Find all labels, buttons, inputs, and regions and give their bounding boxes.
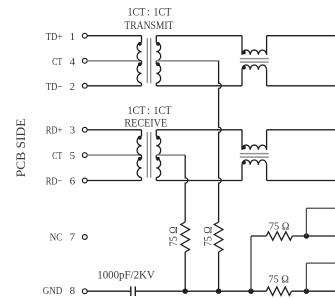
wire pin2 TD- to T1 primary bottom <box>87 85 141 87</box>
capacitor C1 1000pF/2KV <box>130 286 132 296</box>
resistor R1 75ohm (vertical) <box>181 222 190 252</box>
svg-text:GND: GND <box>43 285 63 297</box>
svg-text:1CT: 1CT <box>153 105 171 117</box>
resistor R2 75ohm (vertical) <box>214 222 223 252</box>
choke L1 (transmit) bottom winding polarity dot <box>242 66 246 70</box>
svg-text:1CT: 1CT <box>128 7 146 19</box>
svg-text::: : <box>147 7 150 19</box>
transformer T2 RECEIVE primary polarity dot top <box>138 136 142 140</box>
wire R4 junction up <box>305 208 307 236</box>
wire pin8 GND to C1 <box>87 290 131 292</box>
svg-text:75 Ω: 75 Ω <box>268 274 289 286</box>
svg-text:RD+: RD+ <box>46 125 63 137</box>
choke L2 (receive) bottom winding polarity dot <box>242 161 246 165</box>
svg-text:8: 8 <box>70 285 76 297</box>
junction node R1/GND <box>183 289 188 294</box>
svg-text:CT: CT <box>52 150 62 162</box>
junction node R3 output <box>304 289 309 294</box>
wire pin3 RD+ to T2 primary top <box>87 129 141 131</box>
choke L1 (transmit) top winding polarity dot <box>242 51 246 55</box>
pin 4 CT terminal <box>82 58 87 63</box>
transformer T1 TRANSMIT secondary polarity dot bottom <box>156 62 160 66</box>
transformer T1 TRANSMIT primary polarity dot bottom <box>138 62 142 66</box>
wire GND bus C1 to R3 <box>135 290 266 292</box>
svg-text:4: 4 <box>70 56 76 68</box>
svg-text:RECEIVE: RECEIVE <box>124 117 167 129</box>
junction node R4-leg/GND <box>248 289 253 294</box>
transformer T2 RECEIVE core <box>146 132 148 178</box>
wire pin6 RD- to T2 primary bottom <box>87 180 141 182</box>
wire R3 right to edge <box>292 290 335 292</box>
pin 2 TD- terminal <box>82 83 87 88</box>
transformer T2 RECEIVE primary polarity dot bottom <box>138 157 142 161</box>
wire T2 secondary center tap (gray) <box>156 154 185 156</box>
svg-text::: : <box>147 105 150 117</box>
svg-text:3: 3 <box>70 125 76 137</box>
wire L1 bottom output to edge <box>267 85 335 87</box>
transformer T2 RECEIVE secondary polarity dot top <box>156 136 160 140</box>
wire L2 top output to edge <box>267 129 335 131</box>
pin 8 GND terminal <box>82 289 87 294</box>
svg-text:2: 2 <box>70 81 76 93</box>
svg-text:NC: NC <box>50 231 63 243</box>
wire L1 top output to edge <box>267 35 335 37</box>
choke L2 (receive) core <box>240 153 269 155</box>
wire T1 secondary center tap (gray) <box>156 60 218 62</box>
transformer T2 RECEIVE secondary winding <box>155 130 157 137</box>
svg-text:1000pF/2KV: 1000pF/2KV <box>97 269 155 281</box>
wire T2 secondary top to L2 <box>156 129 242 131</box>
svg-text:RD−: RD− <box>46 175 63 187</box>
choke L2 (receive) top winding polarity dot <box>242 146 246 150</box>
wire R3 upper output to edge <box>306 262 335 264</box>
pin 3 RD+ terminal <box>82 127 87 132</box>
resistor R3 75ohm (horizontal, inline on bus) <box>266 287 291 295</box>
junction node R2/GND <box>216 289 221 294</box>
svg-text:6: 6 <box>70 175 76 187</box>
pin 5 CT terminal <box>82 153 87 158</box>
transformer T2 RECEIVE primary winding <box>141 130 143 137</box>
wire R2 bottom to GND bus <box>218 252 220 291</box>
wire T1 secondary top to L1 <box>156 35 242 37</box>
transformer T1 TRANSMIT secondary winding <box>155 36 157 43</box>
transformer T1 TRANSMIT primary winding <box>141 36 143 43</box>
pin 1 TD+ terminal <box>82 33 87 38</box>
svg-text:75 Ω: 75 Ω <box>201 226 214 246</box>
transformer T2 RECEIVE secondary polarity dot bottom <box>156 157 160 161</box>
svg-text:75 Ω: 75 Ω <box>167 226 180 246</box>
svg-text:TRANSMIT: TRANSMIT <box>124 20 173 32</box>
choke L2 (receive) top winding <box>241 130 243 150</box>
wire pin4 CT to T1 primary center tap <box>87 60 141 62</box>
wire L2 bottom output to edge <box>267 180 335 182</box>
wire R1 bottom to GND bus <box>184 252 186 291</box>
wire R3 junction up <box>305 263 307 291</box>
svg-text:TD+: TD+ <box>46 31 63 43</box>
choke L1 (transmit) top winding <box>241 36 243 55</box>
wire R4 left leg down to GND bus <box>250 236 252 291</box>
svg-text:1CT: 1CT <box>128 105 146 117</box>
wire T2 secondary bottom to L2 <box>156 180 242 182</box>
svg-text:75 Ω: 75 Ω <box>269 221 290 233</box>
wire T1 sec CT down to R2 (hops 3 wires) <box>219 61 222 222</box>
svg-text:5: 5 <box>70 150 76 162</box>
resistor R4 75ohm (horizontal) <box>266 232 292 240</box>
junction node R4 output <box>304 233 309 238</box>
svg-text:7: 7 <box>70 231 76 243</box>
pin 7 NC terminal <box>82 235 87 240</box>
wire T1 secondary bottom to L1 <box>156 85 242 87</box>
svg-text:CT: CT <box>52 56 62 68</box>
wire R4 upper output to edge <box>306 207 335 209</box>
transformer T1 TRANSMIT secondary polarity dot top <box>156 42 160 46</box>
svg-text:1CT: 1CT <box>153 7 171 19</box>
wire pin5 CT to T2 primary center tap <box>87 154 141 156</box>
wire T2 sec CT down to R1 (hop over RD- wire) <box>185 155 188 222</box>
choke L2 (receive) bottom winding <box>241 165 243 181</box>
svg-text:TD−: TD− <box>46 81 63 93</box>
svg-text:1: 1 <box>70 31 76 43</box>
transformer T1 TRANSMIT core <box>146 38 148 83</box>
wire pin1 TD+ to T1 primary top <box>87 35 141 37</box>
choke L1 (transmit) core <box>240 58 269 60</box>
svg-text:PCB SIDE: PCB SIDE <box>14 118 28 177</box>
wire R4 right to junction <box>292 235 335 237</box>
wire R4 left leg to zigzag <box>251 235 266 237</box>
pin 6 RD- terminal <box>82 178 87 183</box>
choke L1 (transmit) bottom winding <box>241 70 243 86</box>
transformer T1 TRANSMIT primary polarity dot top <box>138 42 142 46</box>
